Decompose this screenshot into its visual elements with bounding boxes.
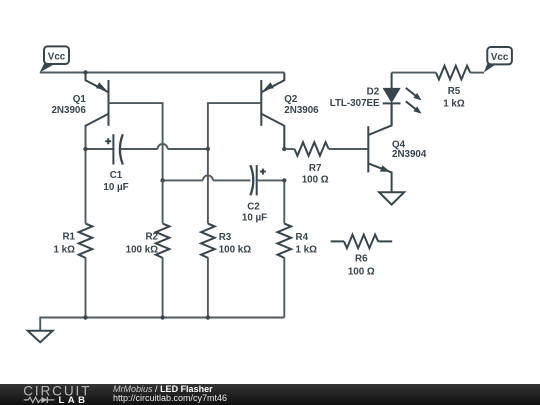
svg-text:R2: R2 [145, 232, 158, 243]
svg-text:100 kΩ: 100 kΩ [126, 245, 159, 256]
wire top Vcc rail [40, 72, 284, 74]
node Q2 collector / R7 [282, 147, 286, 151]
wire C2 to Q2 collector node [257, 179, 285, 181]
ground under Q4 [379, 192, 404, 204]
resistor R3 100k (vertical) [207, 149, 209, 224]
svg-text:Q1: Q1 [73, 94, 87, 105]
wire Q1 base to node B [109, 103, 163, 180]
footer url text [113, 394, 227, 403]
resistor R5 1k (horizontal) [436, 66, 470, 80]
svg-text:R5: R5 [448, 86, 461, 97]
svg-text:R4: R4 [296, 232, 309, 243]
node rail / R3 [206, 315, 210, 319]
wire row2 left (node B to C2) with hop [163, 179, 203, 181]
transistor Q4 (NPN 2N3904) [368, 103, 391, 192]
capacitor C2 10uF [250, 165, 265, 195]
transistor Q1 (PNP 2N3906) [86, 73, 109, 150]
svg-text:LTL-307EE: LTL-307EE [330, 98, 380, 109]
node Vcc rail / Q1 emitter junction [83, 70, 87, 74]
svg-text:D2: D2 [367, 86, 380, 97]
svg-text:R1: R1 [62, 232, 75, 243]
footer title text [113, 385, 213, 394]
svg-text:1 kΩ: 1 kΩ [54, 245, 76, 256]
resistor R2 100k (vertical) [162, 180, 164, 223]
capacitor C1 10uF [105, 134, 123, 164]
Vcc flag left [40, 46, 69, 72]
wire hop over node-A vertical [203, 175, 213, 180]
svg-text:Q2: Q2 [284, 94, 298, 105]
CircuitLab logo [0, 384, 100, 405]
transistor Q2 (PNP 2N3906) [261, 73, 284, 150]
svg-text:R6: R6 [355, 253, 368, 264]
svg-text:1 kΩ: 1 kΩ [296, 245, 318, 256]
node Q2 collector / C2 / R4 [282, 178, 286, 182]
ground bottom left [28, 331, 53, 343]
Vcc flag right [484, 47, 512, 72]
wire hop over node-B vertical [158, 144, 168, 149]
svg-text:100 Ω: 100 Ω [348, 266, 375, 277]
resistor R4 1k (vertical) [283, 180, 285, 223]
node rail / R2 [160, 315, 164, 319]
svg-text:Vcc: Vcc [48, 51, 66, 62]
svg-text:2N3904: 2N3904 [392, 149, 427, 160]
svg-text:2N3906: 2N3906 [284, 105, 319, 116]
svg-text:R7: R7 [309, 163, 322, 174]
resistor R6 100 Ohm (floating) [331, 240, 344, 242]
LED light arrow 1 [406, 88, 417, 97]
svg-text:R3: R3 [219, 232, 232, 243]
svg-text:100 Ω: 100 Ω [302, 175, 329, 186]
svg-text:C2: C2 [247, 202, 260, 213]
svg-text:10 µF: 10 µF [242, 213, 267, 224]
node Q1 collector / C1 / R1 [83, 147, 87, 151]
svg-text:100 kΩ: 100 kΩ [219, 245, 252, 256]
wire LED to R5 [392, 72, 436, 74]
svg-text:1 kΩ: 1 kΩ [443, 99, 465, 110]
svg-text:LAB: LAB [59, 395, 89, 405]
svg-text:2N3906: 2N3906 [51, 105, 86, 116]
svg-text:C1: C1 [110, 170, 123, 181]
wire row1 right (C1 to node A) with hop [120, 148, 158, 150]
node rail / R1 [83, 315, 87, 319]
wire row1 left (Q1 collector to C1) [86, 148, 114, 150]
LED light arrow 2 [406, 101, 417, 110]
node A (Q2 base / C1 / R3) [206, 147, 210, 151]
svg-text:Vcc: Vcc [491, 52, 509, 63]
wire bottom ground rail [40, 318, 284, 331]
node B (Q1 base / C2 / R2) [160, 178, 164, 182]
wire Q2 base to node A [208, 103, 261, 149]
resistor R1 1k (vertical) [85, 126, 87, 224]
LED D2 LTL-307EE [383, 73, 422, 126]
svg-text:10 µF: 10 µF [103, 182, 128, 193]
resistor R7 100 Ohm (horizontal) [284, 148, 294, 150]
